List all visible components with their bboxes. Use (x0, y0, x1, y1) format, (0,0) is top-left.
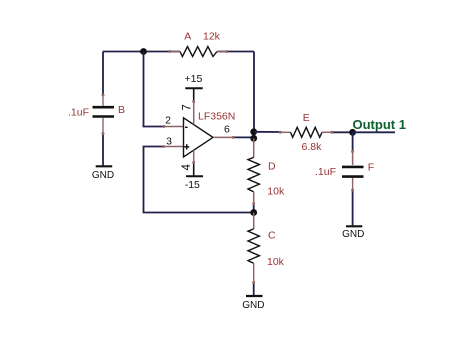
lead: op-amp pin 3 (164, 146, 184, 148)
wire: top right segment from resistor A to right column (217, 51, 254, 53)
svg-text:D: D (268, 160, 276, 172)
wire: resistor C to ground (253, 283, 255, 295)
lead: capacitor F top (352, 152, 354, 165)
lead: resistor D top (253, 138, 255, 157)
wire: upper junction to resistor E (254, 131, 280, 133)
node: output node (349, 129, 356, 136)
lead: capacitor B bottom lead (102, 118, 104, 134)
wire: resistor D to junction (253, 203, 255, 213)
resistor A (180, 47, 217, 57)
resistor E (291, 127, 323, 137)
resistor D (248, 157, 259, 192)
op-amp U1 triangle (184, 118, 214, 157)
svg-text:GND: GND (242, 300, 264, 311)
svg-text:6.8k: 6.8k (302, 141, 323, 153)
wire: left vertical down to capacitor B (102, 52, 104, 96)
lead: capacitor B top lead (102, 95, 104, 106)
lead: resistor A right (217, 51, 227, 53)
svg-text:2: 2 (165, 115, 171, 127)
ground under capacitor F (342, 226, 364, 240)
resistor C (248, 229, 259, 263)
svg-text:4: 4 (181, 164, 193, 171)
wire: output node down to capacitor F (352, 132, 354, 152)
wire: output to right column (233, 136, 254, 138)
svg-text:E: E (303, 112, 310, 124)
svg-text:GND: GND (342, 229, 364, 240)
lead: resistor C bottom (253, 263, 255, 283)
svg-text:.1uF: .1uF (68, 106, 89, 118)
wire: junction down to pin 2 (144, 52, 165, 127)
svg-text:LF356N: LF356N (198, 111, 235, 123)
capacitor F (342, 167, 364, 177)
wire: capacitor F to ground (352, 191, 354, 226)
lead: capacitor F bottom (352, 178, 354, 191)
wire: right column vertical (253, 52, 255, 133)
capacitor B (93, 107, 115, 116)
svg-text:10k: 10k (267, 256, 285, 268)
lead: op-amp pin 2 (164, 126, 184, 128)
node: top junction (140, 48, 147, 55)
svg-text:GND: GND (92, 170, 114, 181)
svg-text:6: 6 (224, 124, 230, 136)
wire: resistor E to output node (332, 131, 353, 133)
svg-text:-15: -15 (185, 179, 200, 191)
lead: resistor E right (322, 131, 332, 133)
plus sign inside (184, 146, 189, 148)
node: divider junction (250, 209, 257, 216)
wire: pin 3 to feedback node (144, 147, 254, 213)
power -15 supply (185, 163, 203, 191)
svg-text:12k: 12k (203, 31, 221, 43)
lead: resistor A left (170, 51, 180, 53)
svg-text:A: A (184, 30, 191, 42)
svg-text:F: F (368, 162, 374, 174)
wire: output stub to the right (353, 131, 395, 133)
minus sign inside (185, 126, 188, 128)
wire: capacitor B to ground (102, 134, 104, 165)
svg-text:B: B (118, 104, 125, 116)
lead: op-amp pin 7 (193, 101, 195, 125)
pin-end dots (small connection points) (102, 50, 355, 284)
svg-text:+15: +15 (184, 73, 202, 85)
power +15 supply (184, 73, 202, 101)
node: output junction lower (250, 135, 257, 142)
lead: resistor E left (280, 131, 291, 133)
node: output junction upper (250, 128, 257, 135)
svg-text:Output 1: Output 1 (353, 117, 406, 132)
lead: op-amp output pin 6 (213, 136, 233, 138)
ground under resistor C (242, 296, 264, 311)
wire: top horizontal from left corner to resistor A (103, 51, 180, 53)
svg-text:7: 7 (182, 104, 194, 110)
lead: resistor C top (253, 213, 255, 229)
svg-text:10k: 10k (267, 186, 285, 198)
lead: op-amp pin 4 (193, 150, 195, 163)
svg-text:C: C (268, 230, 276, 242)
lead: resistor D bottom (253, 192, 255, 203)
ground under capacitor B (92, 166, 114, 181)
svg-text:.1uF: .1uF (315, 166, 336, 178)
svg-text:3: 3 (166, 136, 172, 148)
